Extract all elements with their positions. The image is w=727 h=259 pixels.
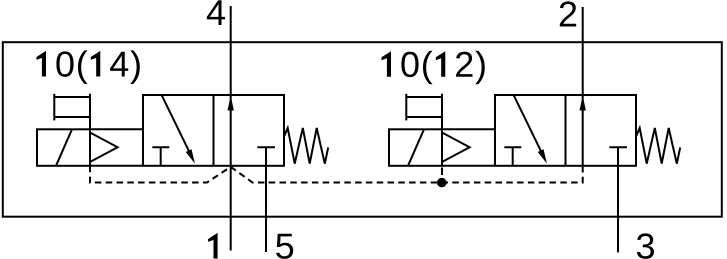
V2 blocked port T right: [609, 146, 627, 148]
port 3 label: [637, 233, 654, 258]
V1 pilot box: [90, 94, 143, 166]
manifold enclosure: [3, 42, 722, 217]
V1 flow arrow 1-4: [228, 96, 234, 111]
V2 solenoid coil: [389, 129, 442, 166]
V1 flow arrow 2-3 (crossed path): [161, 95, 195, 164]
port 5 label: [276, 234, 293, 259]
label 10(14): [37, 50, 140, 84]
pilot line junction node: [437, 178, 447, 188]
V1 solenoid coil: [37, 129, 90, 166]
V1 blocked port T left: [152, 147, 169, 166]
valve V1 body: [143, 95, 284, 166]
V2 blocked port T left: [504, 147, 521, 166]
V2 flow arrow crossed path: [513, 95, 547, 164]
port 1 label: [208, 233, 218, 259]
port 3 line: [617, 147, 619, 252]
V2 return spring: [636, 128, 680, 164]
label 10(12): [382, 51, 485, 85]
V1 return spring: [284, 128, 328, 164]
V2 manual override: [406, 94, 442, 121]
port 4 label: [207, 0, 225, 25]
port 4/1 line: [230, 6, 232, 251]
V1 blocked port T right: [257, 146, 275, 148]
V2 flow arrow 1-2: [580, 96, 586, 111]
V1 pilot triangle: [90, 133, 118, 163]
V1 manual override: [54, 94, 90, 121]
valve V2 body: [495, 95, 636, 166]
V2 pilot tap dashed stub: [441, 168, 443, 178]
pilot supply dashed line: [90, 166, 583, 183]
V2 pilot triangle: [442, 133, 470, 163]
port 2 line: [582, 7, 584, 166]
port 2 label: [560, 1, 576, 26]
V2 pilot box: [442, 94, 495, 166]
port 5 line: [265, 147, 267, 252]
